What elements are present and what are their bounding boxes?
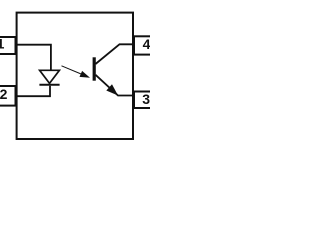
- svg-text:3: 3: [142, 91, 150, 107]
- wire cathode (LED to pin 2): [16, 86, 50, 96]
- svg-text:2: 2: [0, 86, 8, 102]
- LED D1 cathode bar: [39, 84, 59, 86]
- wire anode (pin 1 to LED): [16, 45, 51, 70]
- svg-text:1: 1: [0, 36, 5, 52]
- light arrow shaft: [62, 66, 84, 75]
- pin 4 box: [134, 36, 158, 54]
- svg-text:4: 4: [143, 36, 150, 52]
- light arrow head: [80, 71, 91, 78]
- transistor Q1 collector wire to pin 4: [96, 44, 134, 64]
- pin 3 box: [134, 92, 158, 109]
- pin 2 box: [0, 86, 16, 106]
- transistor Q1 base bar: [93, 57, 96, 80]
- transistor Q1 emitter arrowhead: [106, 84, 118, 95]
- LED D1 triangle: [40, 70, 60, 83]
- pin 1 box: [0, 37, 16, 54]
- package body U1: [17, 13, 133, 139]
- transistor Q1 emitter wire to pin 3: [96, 75, 134, 96]
